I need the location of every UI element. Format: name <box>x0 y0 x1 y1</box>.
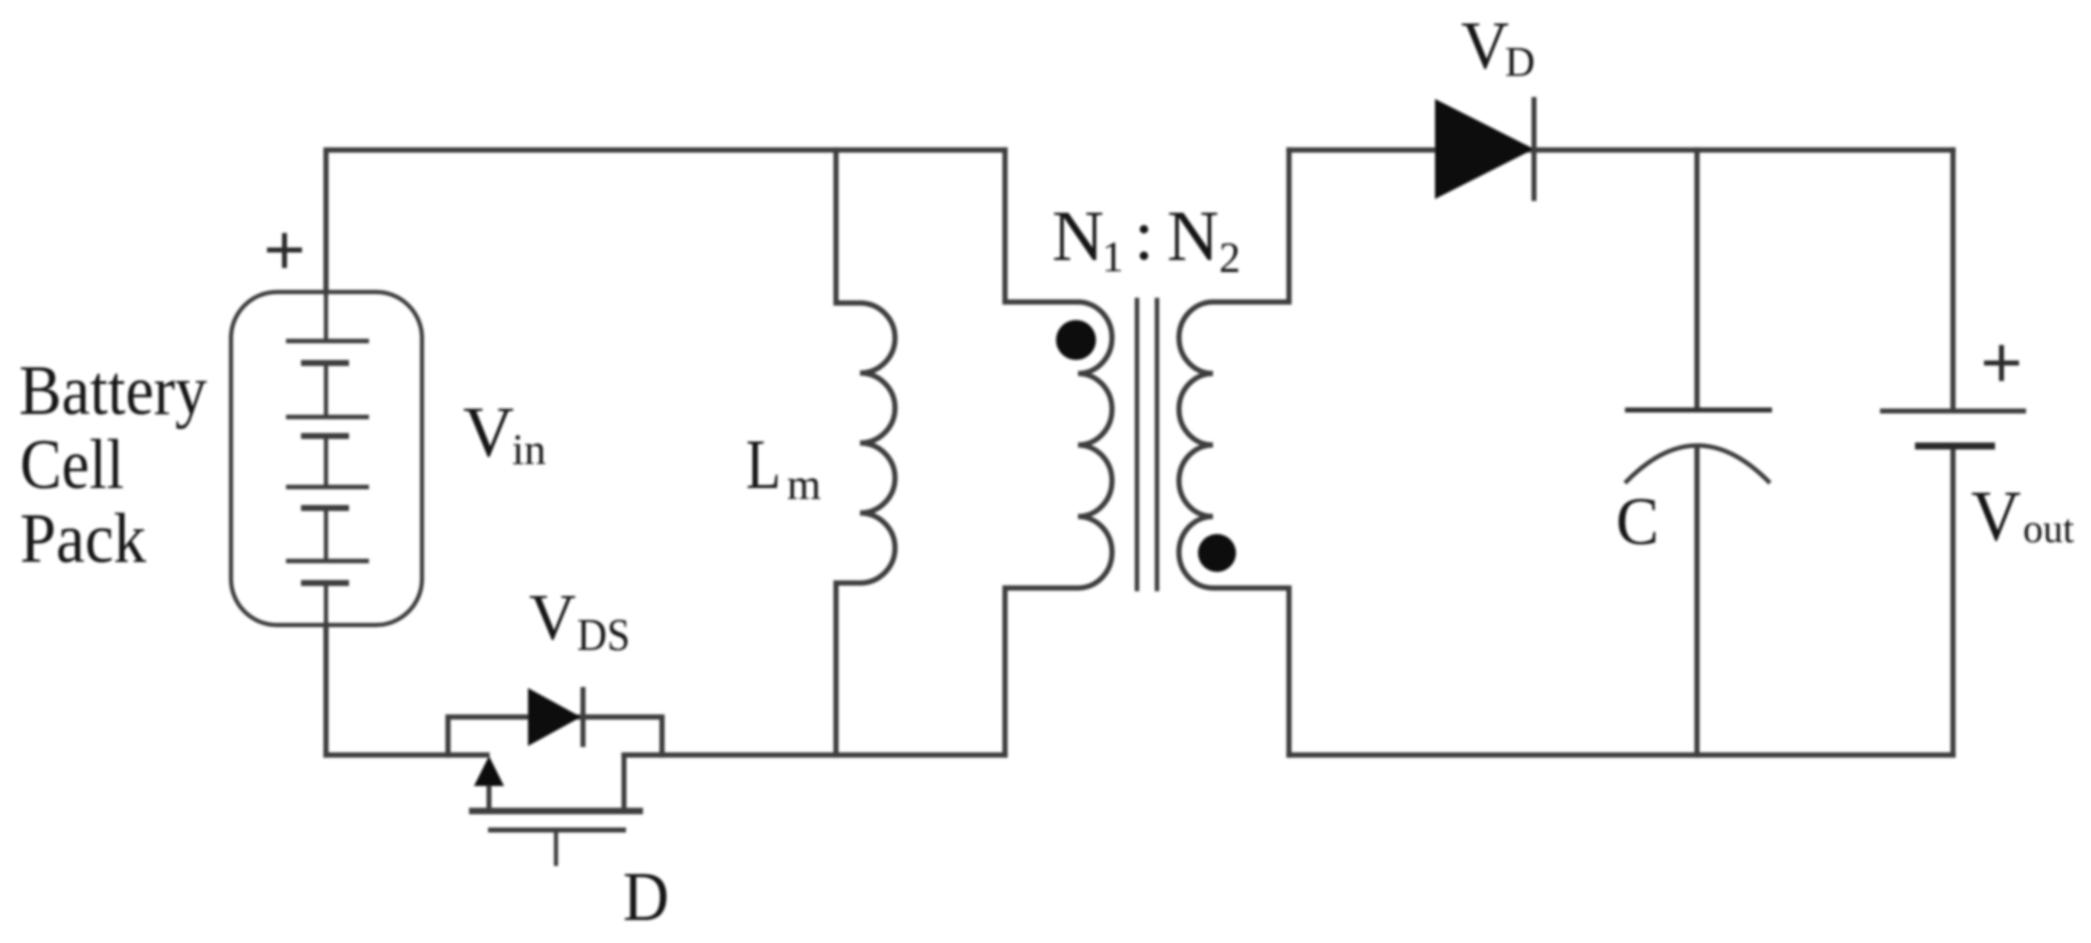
Vout source short plate <box>1915 443 1995 450</box>
diode VD triangle <box>1435 99 1534 199</box>
svg-text:D: D <box>1505 40 1535 86</box>
wire bottom-left rail from battery to MOSFET source <box>326 752 487 757</box>
body diode cathode bar <box>581 687 586 747</box>
svg-text:D: D <box>623 859 669 936</box>
svg-text::: : <box>1134 195 1154 275</box>
svg-text:L: L <box>746 426 781 504</box>
svg-text:V: V <box>1461 7 1509 83</box>
svg-text:Cell: Cell <box>20 426 124 504</box>
svg-text:C: C <box>1616 483 1659 559</box>
battery cells inside pack <box>286 292 369 625</box>
inductor Lm (magnetizing inductance, parallel branch) <box>836 150 895 755</box>
wire bottom-center rail from MOSFET drain to primary branch <box>624 752 1005 757</box>
svg-text:2: 2 <box>1219 235 1241 282</box>
cell 2 short plate <box>301 433 349 439</box>
transformer primary winding N1 <box>1005 150 1112 755</box>
gate bar <box>488 828 626 833</box>
svg-text:m: m <box>787 462 821 509</box>
diode VD cathode bar <box>1532 97 1537 201</box>
source arrow stem <box>487 784 492 812</box>
Vout source long plate <box>1880 409 2026 414</box>
MOSFET D (switch) <box>469 687 643 866</box>
svg-text:in: in <box>512 427 546 474</box>
svg-text:Battery: Battery <box>19 352 207 430</box>
capacitor C curved plate <box>1625 446 1770 484</box>
plus sign at Vout <box>1984 345 2019 381</box>
svg-text:DS: DS <box>577 610 630 660</box>
capacitor C top plate <box>1625 408 1772 413</box>
cell 4 long plate <box>286 559 369 564</box>
battery cell pack rounded enclosure <box>231 292 422 625</box>
cell 1 short plate <box>301 360 349 366</box>
svg-text:Pack: Pack <box>20 500 146 578</box>
transformer core line right <box>1155 300 1160 589</box>
svg-text:1: 1 <box>1102 234 1124 281</box>
capacitor C branch upper wire <box>1694 150 1699 408</box>
wire bottom-right rail from secondary to output <box>1289 752 1953 757</box>
Vout branch lower wire <box>1950 449 1955 755</box>
cell 3 long plate <box>286 485 369 490</box>
cell interconnect stubs <box>324 292 328 625</box>
secondary dot <box>1198 534 1236 572</box>
source arrow head <box>474 756 504 786</box>
plus sign at battery positive <box>267 233 302 268</box>
svg-text:V: V <box>463 392 514 472</box>
wire top-right rail through diode VD to output <box>1289 147 1953 152</box>
svg-text:out: out <box>2023 506 2074 551</box>
drain vertical <box>622 753 627 811</box>
cell 1 long plate <box>286 339 369 344</box>
gate stub <box>554 832 558 866</box>
transformer core line left <box>1135 300 1140 589</box>
svg-text:V: V <box>1971 476 2021 556</box>
transformer secondary winding N2 <box>1179 150 1289 755</box>
body diode triangle <box>528 688 581 746</box>
wire body-diode branch up-over-down <box>448 717 662 755</box>
Vout branch upper wire <box>1950 150 1955 408</box>
capacitor C branch lower wire <box>1694 447 1699 755</box>
primary dot <box>1056 320 1096 360</box>
cell 3 short plate <box>301 505 349 511</box>
cell 2 long plate <box>286 415 369 420</box>
cell 4 short plate <box>301 580 349 586</box>
svg-text:N: N <box>1167 196 1219 276</box>
svg-text:N: N <box>1052 196 1104 276</box>
svg-text:V: V <box>529 581 576 654</box>
wire top-left from battery positive up and right to primary branch <box>326 150 1005 292</box>
channel bar <box>469 808 643 815</box>
wire battery negative down to bottom rail <box>323 625 328 755</box>
